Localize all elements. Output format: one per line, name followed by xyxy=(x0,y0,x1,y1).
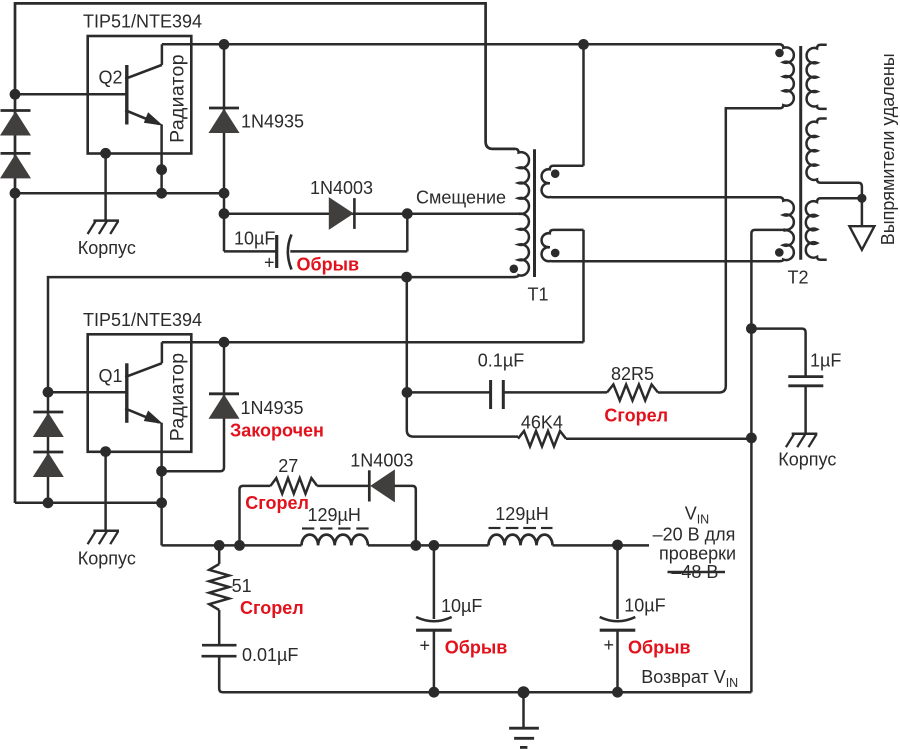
capacitor 1µF to chassis xyxy=(751,329,841,434)
capacitor 10µF (middle filter, open) xyxy=(416,545,482,692)
svg-text:1N4003: 1N4003 xyxy=(350,451,413,471)
svg-text:Корпус: Корпус xyxy=(78,238,136,258)
wire Q1 base xyxy=(48,391,127,394)
ground earth (bottom rail) xyxy=(509,692,539,747)
wire 82R5 to T2 primary upper return xyxy=(658,108,780,392)
svg-text:Q2: Q2 xyxy=(99,68,123,88)
wire main rail y=545.4 with inductors xyxy=(162,544,302,547)
wire Q2 collector rail y=44 to T2 xyxy=(162,43,781,46)
wire rail between inductors xyxy=(368,544,489,547)
capacitor 10µF (bias filter, open) xyxy=(224,214,407,273)
svg-text:Корпус: Корпус xyxy=(78,548,136,568)
transformer T1 core xyxy=(533,149,536,277)
wire T2 center tap to VIN return riser xyxy=(751,230,783,692)
node 27 ohm junction xyxy=(234,540,245,551)
node bias junction above 10uF xyxy=(402,208,413,219)
inductor 129µH L2 xyxy=(489,535,553,546)
svg-text:1N4003: 1N4003 xyxy=(310,178,373,198)
diode input rectifier D2 (left bottom) xyxy=(1,152,31,155)
svg-text:1N4935: 1N4935 xyxy=(241,112,304,132)
transistor Q2 TIP51/NTE394 xyxy=(88,36,192,193)
wire 1N4003 to rail xyxy=(394,486,415,546)
wire y=502.8 left rail to Q1 emitter xyxy=(15,502,162,505)
svg-text:TIP51/NTE394: TIP51/NTE394 xyxy=(83,310,202,330)
transformer T2 secondary winding section 2 xyxy=(806,119,861,199)
node Q2 collector junction xyxy=(219,39,230,50)
transformer T1 secondary lower winding xyxy=(542,230,584,261)
svg-text:+: + xyxy=(420,636,431,656)
svg-text:Сгорел: Сгорел xyxy=(245,493,309,513)
capacitor 0.1µF xyxy=(407,350,607,409)
svg-text:10µF: 10µF xyxy=(234,228,275,248)
svg-text:82R5: 82R5 xyxy=(611,364,654,384)
wire T1 sec upper bottom to T2 (y=197.2) xyxy=(552,196,781,199)
svg-text:–20 В для: –20 В для xyxy=(653,525,736,545)
node 1N4003 rail junction xyxy=(410,540,421,551)
svg-text:Радиатор: Радиатор xyxy=(166,54,188,143)
node Q2 emitter junction on wire xyxy=(156,188,167,199)
svg-text:Обрыв: Обрыв xyxy=(297,255,360,275)
svg-text:0.01µF: 0.01µF xyxy=(242,645,298,665)
node T1 primary bottom junction xyxy=(401,272,412,283)
node T1 secondary top junction xyxy=(578,39,589,50)
transformer T2 secondary winding section 1 xyxy=(807,45,827,109)
node Q1 emitter lower junction xyxy=(156,497,167,508)
resistor 46K4 xyxy=(518,431,566,446)
ground output common (open arrow) xyxy=(849,226,874,250)
svg-text:Возврат VIN: Возврат VIN xyxy=(641,667,738,690)
wire rail to VIN stub xyxy=(553,544,650,547)
resistor 51 (burned) xyxy=(218,545,221,564)
svg-text:51: 51 xyxy=(232,576,252,596)
node earth ground junction xyxy=(518,686,530,698)
node middle 10µF junction xyxy=(429,540,440,551)
wire y=193 from left rail to 1N4935 anode xyxy=(15,192,224,195)
node 46K4 junction on riser xyxy=(746,433,757,444)
transformer T2 core xyxy=(799,46,802,260)
diode input rectifier D4 (Q1 pair bottom) xyxy=(33,451,63,454)
svg-text:1N4935: 1N4935 xyxy=(241,398,304,418)
wire Q1 case to chassis xyxy=(104,452,107,531)
wire T1 primary bottom to Q1 base column xyxy=(48,277,407,503)
svg-text:Сгорел: Сгорел xyxy=(604,406,668,426)
svg-text:129µH: 129µH xyxy=(308,505,361,525)
node T1 secondary upper polarity dot xyxy=(551,169,560,178)
svg-text:проверки: проверки xyxy=(659,544,736,564)
node right 10µF bottom junction xyxy=(612,687,623,698)
svg-text:10µF: 10µF xyxy=(624,596,665,616)
svg-text:1µF: 1µF xyxy=(810,351,841,371)
svg-text:+: + xyxy=(604,635,615,655)
wire bias y=213.7 to T1 center tap xyxy=(224,212,519,215)
svg-text:Смещение: Смещение xyxy=(416,188,506,208)
svg-text:0.1µF: 0.1µF xyxy=(478,350,524,370)
wire riser x=407 from T1 bottom wire to 46K4 xyxy=(407,277,518,437)
node VIN junction xyxy=(612,540,623,551)
transformer T2 primary lower winding (center-tapped) xyxy=(779,197,794,261)
svg-text:27: 27 xyxy=(278,456,298,476)
node T2 secondary ground junction xyxy=(857,194,866,203)
svg-text:T2: T2 xyxy=(788,268,809,288)
wire Q1 collector to T1 (y=342.2) xyxy=(162,341,584,344)
wire T2 secondary to output common arrow xyxy=(861,198,864,226)
node Q1 base junction xyxy=(43,387,54,398)
transformer T1 primary winding xyxy=(407,149,529,277)
resistor 27 (burned) xyxy=(240,486,271,546)
wire bottom rail (VIN return) xyxy=(219,656,751,692)
node middle 10µF bottom junction xyxy=(429,687,440,698)
svg-text:Обрыв: Обрыв xyxy=(445,638,508,658)
svg-text:Обрыв: Обрыв xyxy=(628,638,691,658)
node 1N4935 anode junction xyxy=(219,188,230,199)
svg-text:129µH: 129µH xyxy=(495,504,548,524)
wire Q2 case to chassis xyxy=(104,153,107,220)
svg-text:Сгорел: Сгорел xyxy=(240,598,304,618)
wire Q2 base xyxy=(15,93,127,96)
svg-text:Закорочен: Закорочен xyxy=(230,421,324,441)
node 0.1uF branch junction xyxy=(402,387,413,398)
node 51 ohm junction xyxy=(214,540,225,551)
diode 1N4935 (Q2 snubber) xyxy=(223,44,226,251)
node T2 primary upper polarity dot xyxy=(775,49,784,58)
ground chassis (Q2) Корпус xyxy=(93,219,119,222)
svg-text:10µF: 10µF xyxy=(441,596,482,616)
node Q1 case junction xyxy=(100,446,111,457)
diode input rectifier D1 (left top) xyxy=(1,109,31,112)
svg-text:Корпус: Корпус xyxy=(778,450,836,470)
capacitor 0.01µF xyxy=(202,645,299,689)
inductor 129µH L1 xyxy=(302,535,368,546)
transistor Q1 TIP51/NTE394 xyxy=(88,334,192,545)
transformer T2 secondary winding section 3 xyxy=(806,198,862,259)
node diode chain bottom junction xyxy=(43,497,54,508)
wire T1 sec lower top to Q1 collector riser xyxy=(582,230,585,342)
svg-text:Выпрямители удалены: Выпрямители удалены xyxy=(878,53,898,245)
capacitor 10µF (input filter, open) xyxy=(600,545,666,692)
svg-text:+: + xyxy=(264,253,275,273)
svg-text:Радиатор: Радиатор xyxy=(166,353,188,442)
wire 46K4 to VIN return riser xyxy=(566,437,751,440)
diode input rectifier D3 (Q1 pair top) xyxy=(33,411,63,414)
node 1µF branch junction xyxy=(746,323,757,334)
diode 1N4935 (Q1 snubber, shorted) xyxy=(162,342,224,471)
node Q2 emitter dot below box xyxy=(156,164,167,175)
node Q1 emitter junction with 1N4935 return xyxy=(156,466,167,477)
diode 1N4003 (bias rectifier) xyxy=(329,198,353,229)
wire T1 sec lower bottom to T2 (y=261.2) xyxy=(552,260,781,263)
node left rail lower junction xyxy=(10,188,21,199)
node T1 primary polarity dot xyxy=(510,265,519,274)
node T1 secondary lower polarity dot xyxy=(551,249,560,258)
svg-text:46K4: 46K4 xyxy=(521,413,563,433)
svg-text:TIP51/NTE394: TIP51/NTE394 xyxy=(83,12,202,32)
transformer T2 primary upper winding xyxy=(726,44,794,108)
svg-text:T1: T1 xyxy=(528,285,549,305)
node bias wire junction at x=224 xyxy=(219,208,230,219)
node Q2 case junction xyxy=(100,148,111,159)
resistor 82R5 (burned) xyxy=(607,385,658,401)
transformer T1 secondary upper winding xyxy=(542,166,584,197)
ground chassis (Q1) Корпус xyxy=(93,530,119,533)
wire top border from left rail to T1 primary xyxy=(15,3,515,503)
svg-text:Q1: Q1 xyxy=(99,366,123,386)
diode 1N4003 (freewheel, points left) xyxy=(371,470,394,501)
node T2 primary lower polarity dot xyxy=(775,248,784,257)
ground chassis (1µF) Корпус xyxy=(792,433,818,436)
node Q1 collector junction xyxy=(219,337,230,348)
node left rail / Q2 base junction xyxy=(10,89,21,100)
